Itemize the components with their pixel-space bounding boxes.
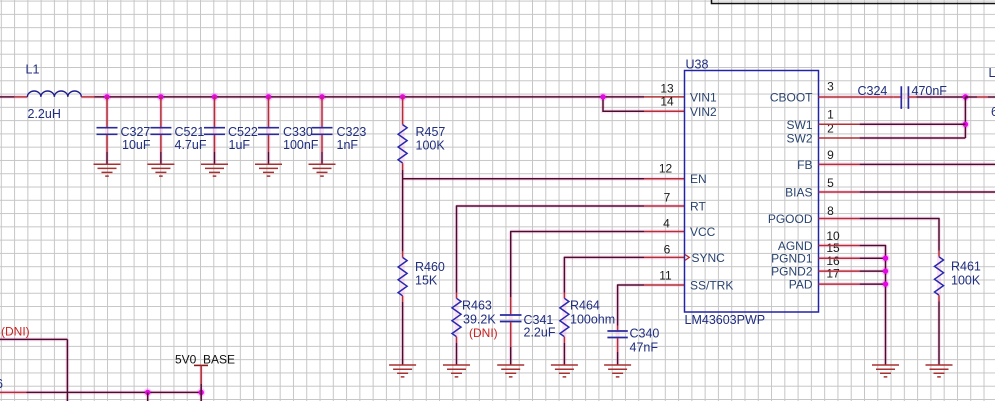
ground C341 — [497, 365, 524, 377]
svg-text:EN: EN — [690, 172, 707, 186]
wire PAD — [860, 283, 886, 285]
wire C324 to SW node — [916, 96, 965, 98]
resistor R460 — [398, 251, 407, 302]
svg-text:4: 4 — [663, 217, 670, 231]
svg-text:4.7uF: 4.7uF — [175, 138, 207, 152]
wire AGND — [860, 246, 886, 366]
pin 5 BIAS stub — [819, 191, 860, 193]
junction node bottom rail B — [199, 390, 204, 395]
ground C327 — [94, 164, 121, 176]
svg-text:(DNI): (DNI) — [469, 326, 498, 340]
wire stub red right edge — [977, 96, 988, 98]
ground R464 — [551, 365, 578, 377]
pin 6 SYNC stub — [644, 256, 685, 258]
svg-text:100K: 100K — [416, 139, 446, 153]
svg-text:8: 8 — [827, 204, 834, 218]
svg-text:39.2K: 39.2K — [463, 313, 496, 327]
pin 17 PAD stub — [819, 283, 860, 285]
wire RT branch — [457, 206, 645, 293]
junction node VIN/C521 — [158, 94, 163, 99]
wire SYNC branch — [564, 257, 644, 292]
capacitor C341 — [500, 297, 522, 347]
svg-text:C324: C324 — [858, 84, 888, 98]
svg-text:14: 14 — [660, 95, 674, 109]
wire VIN2 branch — [603, 97, 644, 111]
svg-text:6: 6 — [0, 377, 3, 391]
junction node VIN1/VIN2 — [600, 94, 605, 99]
wire dark right edge — [988, 96, 995, 98]
wire glow underlay — [0, 97, 995, 401]
border corner (sheet frame, top right) — [712, 0, 995, 4]
svg-text:470nF: 470nF — [912, 84, 948, 98]
svg-text:U38: U38 — [686, 58, 709, 72]
svg-text:C522: C522 — [228, 125, 258, 139]
ground R461 — [926, 365, 953, 377]
wire PGOOD — [860, 219, 939, 251]
junction node VIN/C522 — [212, 94, 217, 99]
pin 12 EN stub — [644, 178, 685, 180]
pin 13 VIN1 stub — [644, 96, 685, 98]
svg-text:CBOOT: CBOOT — [770, 91, 813, 105]
junction node bottom rail A — [145, 390, 150, 395]
svg-text:1uF: 1uF — [229, 138, 251, 152]
pin 1 SW1 stub — [819, 123, 860, 125]
svg-text:10uF: 10uF — [122, 138, 151, 152]
svg-text:R461: R461 — [951, 260, 981, 274]
junction dot glow underlay — [103, 93, 970, 397]
svg-text:BIAS: BIAS — [785, 186, 812, 200]
svg-text:SW1: SW1 — [786, 118, 812, 132]
svg-text:SYNC: SYNC — [692, 251, 726, 265]
svg-text:VCC: VCC — [690, 225, 716, 239]
ground C340 — [604, 365, 631, 377]
junction node VIN/C327 — [104, 94, 109, 99]
svg-text:100ohm: 100ohm — [570, 313, 615, 327]
resistor R464 — [560, 293, 569, 344]
svg-text:(DNI): (DNI) — [1, 325, 30, 339]
junction node VIN/C323 — [319, 94, 324, 99]
junction node PAD — [883, 281, 888, 286]
wire VIN rail left segment — [0, 96, 14, 98]
svg-text:5: 5 — [827, 176, 834, 190]
svg-text:6: 6 — [664, 243, 671, 257]
svg-text:17: 17 — [826, 267, 840, 281]
resistor R461 — [935, 251, 944, 302]
wire VCC branch — [511, 232, 644, 298]
op-amp U38 body (IC LM43603PWP) — [685, 71, 819, 313]
wire R461 to ground — [938, 302, 940, 366]
svg-text:L1: L1 — [26, 63, 40, 77]
pin 16 PGND2 stub — [819, 270, 860, 272]
wire CBOOT to C324 — [860, 96, 894, 98]
junction node CBOOT/SW — [963, 94, 968, 99]
svg-text:C521: C521 — [175, 125, 205, 139]
resistor R463 — [452, 293, 461, 344]
wire bottom left vertical — [66, 339, 68, 401]
capacitor C521 — [150, 97, 171, 164]
wire VIN rail — [95, 96, 645, 98]
svg-text:PGOOD: PGOOD — [768, 212, 813, 226]
wire SW1 — [860, 123, 966, 125]
svg-text:100nF: 100nF — [283, 138, 319, 152]
junction node VIN/R457 — [400, 94, 405, 99]
svg-text:SS/TRK: SS/TRK — [690, 279, 733, 293]
wire junction A down — [147, 392, 149, 401]
wire R464 to ground — [563, 343, 565, 365]
pin 15 PGND1 stub — [819, 257, 860, 259]
wire FB to right edge — [860, 163, 995, 165]
power symbol 5V0_BASE — [175, 352, 235, 392]
wire EN branch — [403, 178, 644, 180]
svg-text:PGND2: PGND2 — [771, 265, 813, 279]
svg-text:1nF: 1nF — [337, 138, 359, 152]
pin 9 FB stub — [819, 163, 860, 165]
resistor R457 — [398, 97, 407, 170]
pin 7 RT stub — [644, 205, 685, 207]
ground C330 — [255, 164, 282, 176]
svg-text:R460: R460 — [415, 260, 445, 274]
pin 14 VIN2 stub — [644, 110, 685, 112]
pin 2 SW2 stub — [819, 137, 860, 139]
capacitor C324 — [893, 86, 916, 109]
svg-text:C327: C327 — [121, 125, 151, 139]
capacitor C330 — [258, 97, 279, 164]
svg-text:VIN1: VIN1 — [690, 91, 717, 105]
svg-text:R464: R464 — [570, 299, 600, 313]
wire CBOOT node to right edge — [965, 96, 977, 98]
svg-text:2.2uH: 2.2uH — [28, 107, 61, 121]
ground C522 — [201, 164, 228, 176]
SYNC clock mark — [685, 254, 690, 260]
svg-text:SW2: SW2 — [786, 132, 812, 146]
capacitor C522 — [204, 97, 225, 164]
svg-text:100K: 100K — [951, 274, 981, 288]
junction node PGND2 — [883, 268, 888, 273]
wire junction B down — [200, 392, 202, 401]
svg-text:C330: C330 — [283, 125, 313, 139]
svg-text:5V0_BASE: 5V0_BASE — [175, 352, 235, 366]
capacitor C327 — [97, 97, 118, 164]
ground C521 — [147, 164, 174, 176]
svg-text:PGND1: PGND1 — [771, 252, 813, 266]
svg-text:VIN2: VIN2 — [690, 105, 717, 119]
wire SW vertical — [964, 97, 966, 138]
wire SW2 — [860, 137, 966, 139]
ground R463 — [443, 365, 470, 377]
capacitor C340 — [607, 326, 627, 353]
svg-text:PAD: PAD — [789, 278, 813, 292]
wire bottom rail — [27, 391, 202, 393]
capacitor C323 — [312, 97, 333, 164]
pin 10 AGND stub — [819, 245, 860, 247]
svg-text:7: 7 — [664, 191, 671, 205]
svg-text:15K: 15K — [415, 274, 438, 288]
wire R460 to ground — [402, 302, 404, 365]
wire PGND1 — [860, 257, 886, 259]
wire BIAS to right edge — [860, 191, 995, 193]
svg-text:R463: R463 — [462, 299, 492, 313]
svg-text:12: 12 — [659, 161, 673, 175]
svg-text:L2: L2 — [989, 66, 995, 80]
wire SS/TRK branch — [618, 285, 644, 326]
wire R463 to ground — [456, 343, 458, 365]
pin 11 SS/TRK stub — [644, 284, 685, 286]
junction node VIN/C330 — [266, 94, 271, 99]
wire bottom rail red segment — [0, 391, 27, 393]
svg-text:FB: FB — [797, 158, 812, 172]
svg-text:13: 13 — [660, 81, 674, 95]
svg-text:11: 11 — [659, 269, 672, 283]
svg-text:LM43603PWP: LM43603PWP — [685, 313, 766, 327]
wire R457 to EN node — [402, 170, 404, 251]
ground C323 — [309, 164, 336, 176]
pin 4 VCC stub — [644, 231, 685, 233]
inductor L1 — [14, 91, 94, 97]
svg-text:1: 1 — [827, 107, 834, 121]
junction node SW1 — [963, 122, 968, 127]
svg-text:C323: C323 — [337, 125, 367, 139]
junction node PGND1 — [883, 256, 888, 261]
svg-text:47nF: 47nF — [630, 341, 659, 355]
svg-text:6: 6 — [991, 105, 995, 119]
pin 8 PGOOD stub — [819, 218, 860, 220]
ground AGND chain — [872, 365, 899, 377]
wire C340 to ground — [617, 352, 619, 365]
wire bottom left horizontal — [0, 338, 67, 340]
svg-text:R457: R457 — [416, 125, 446, 139]
svg-text:2.2uF: 2.2uF — [524, 326, 556, 340]
svg-text:3: 3 — [827, 80, 834, 94]
wire C341 to ground — [510, 347, 512, 365]
svg-text:RT: RT — [690, 200, 706, 214]
wire PGND2 — [860, 270, 886, 272]
ground R460 — [389, 365, 416, 377]
svg-text:9: 9 — [827, 148, 834, 162]
pin 3 CBOOT stub — [819, 96, 860, 98]
svg-text:C340: C340 — [630, 326, 660, 340]
